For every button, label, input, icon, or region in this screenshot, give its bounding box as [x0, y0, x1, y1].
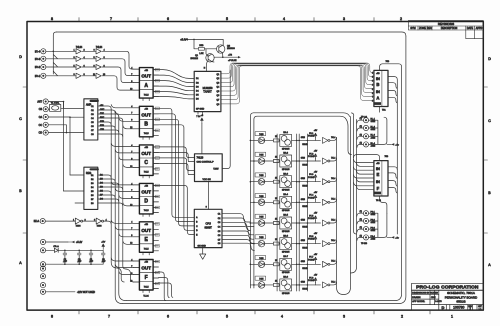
wire OUT C pin1 to 74123: [153, 147, 188, 158]
wire cap rail bottom: [46, 263, 104, 265]
connector spare pin1: [40, 274, 45, 279]
svg-text:+RD2: +RD2: [371, 129, 376, 131]
transistor Q2: [217, 45, 236, 53]
wire vertical x70: [69, 117, 71, 175]
svg-text:7405: 7405: [259, 237, 263, 239]
wire buffer stage 1 to 2 row A-D: [82, 51, 96, 76]
junction dots tall chips left: [63, 101, 65, 103]
svg-text:DIMENSIONS IN INCHES: DIMENSIONS IN INCHES: [412, 292, 438, 294]
svg-text:MPSA65: MPSA65: [282, 271, 289, 274]
svg-text:OUT: OUT: [141, 228, 151, 233]
svg-text:I/O-3: I/O-3: [35, 59, 41, 61]
junction dots driver bus: [250, 140, 255, 286]
driver row 6: [250, 235, 336, 250]
wire I/O-B row w/ jog: [46, 55, 76, 59]
svg-text:560JB: 560JB: [302, 247, 308, 249]
crystal Y1 module: [50, 101, 61, 111]
connector J1 pin I/O-C: [41, 64, 46, 69]
driver column rail x299: [298, 134, 300, 291]
svg-text:E: E: [377, 172, 380, 177]
bus vertical A (loop outer): [115, 112, 123, 304]
wire input bus vertical: [53, 32, 56, 74]
svg-text:74L4: 74L4: [331, 219, 335, 221]
wire Q2 emitter to output node: [222, 53, 224, 57]
IN BA pin numbers: [372, 73, 373, 103]
svg-text:I/O-4: I/O-4: [35, 51, 41, 53]
svg-text:CPU: CPU: [205, 222, 211, 226]
U5 right pin net labels: [100, 105, 105, 131]
test point group TP-BB: [360, 211, 369, 245]
wire IN BA bottom pin: [379, 107, 381, 113]
connector PWR GND1: [40, 248, 45, 253]
svg-text:D: D: [144, 199, 148, 205]
svg-text:A: A: [144, 83, 148, 89]
svg-text:560JB: 560JB: [302, 144, 308, 146]
connector PWR GND2: [40, 262, 45, 267]
svg-text:IN: IN: [376, 76, 380, 81]
buffer U3C: [96, 64, 101, 69]
wire top long run to right loop: [56, 32, 406, 36]
svg-text:GRN: GRN: [301, 220, 306, 222]
svg-text:R5B: R5B: [199, 45, 204, 47]
ground below CPU: [200, 248, 206, 260]
feeder vertical bundle line 2: [351, 120, 357, 274]
driver IC OUT E: [130, 222, 159, 255]
+5v arrow RL group2: [387, 236, 400, 240]
wire OUT A pin5 to UART D5: [153, 92, 194, 95]
svg-text:CB: CB: [39, 109, 43, 111]
U5 right pin labels: [91, 106, 94, 136]
svg-text:103780: 103780: [453, 306, 464, 310]
wire OUT A pin2 to UART D2: [153, 75, 194, 82]
wire -12V not used: [46, 291, 75, 293]
wire +5 to 74123: [201, 115, 204, 154]
svg-text:2: 2: [372, 77, 373, 79]
driver IC OUT D: [130, 183, 159, 216]
svg-text:OUT: OUT: [141, 151, 151, 156]
svg-text:74L5: 74L5: [144, 94, 150, 96]
wire Q2 base branch to Q1: [206, 49, 208, 57]
wire BZ out to bus: [104, 221, 112, 224]
wire OUT F pins to bottom loop: [159, 272, 173, 301]
one-shot IC 74123: [195, 154, 223, 182]
svg-text:1: 1: [372, 73, 373, 75]
svg-text:MPSA65: MPSA65: [282, 189, 289, 192]
svg-text:560JB: 560JB: [302, 206, 308, 208]
svg-text:560JB: 560JB: [302, 227, 308, 229]
connector labels I/O: [35, 51, 41, 78]
title block text: [412, 285, 482, 311]
svg-text:7406: 7406: [76, 226, 82, 228]
svg-text:CR-A: CR-A: [53, 245, 59, 248]
svg-text:560JB: 560JB: [302, 185, 308, 187]
wire to resistor R5: [194, 39, 198, 48]
svg-text:SYM: SYM: [410, 27, 415, 30]
wire Q1 collector output rail: [212, 57, 238, 62]
svg-text:GRN: GRN: [301, 199, 306, 201]
wire group2 row2 through crystal: [48, 107, 84, 110]
svg-text:7: 7: [108, 315, 110, 319]
svg-text:7405: 7405: [259, 134, 263, 136]
wire IN EF right pins to collector: [388, 167, 397, 193]
svg-text:560JB: 560JB: [302, 268, 308, 270]
svg-text:1.5K: 1.5K: [199, 53, 204, 55]
svg-text:C: C: [488, 119, 491, 123]
svg-text:P5-1: P5-1: [309, 133, 313, 135]
zone ticks left: [23, 87, 27, 233]
junction dot output: [222, 56, 224, 58]
zone ticks bottom: [79, 310, 430, 314]
svg-text:A: A: [376, 96, 379, 101]
svg-text:74L04: 74L04: [76, 47, 83, 49]
svg-text:74L4: 74L4: [331, 157, 335, 159]
wire bus to OUT F pins: [111, 258, 133, 282]
wire bus to OUT E pins: [111, 220, 133, 244]
svg-text:APP MODEL: APP MODEL: [412, 300, 426, 303]
svg-text:C: C: [144, 160, 148, 166]
svg-text:4: 4: [283, 17, 285, 21]
driver row 5: [250, 214, 336, 229]
svg-text:+5V: +5V: [101, 242, 105, 244]
svg-text:2: 2: [401, 315, 403, 319]
svg-text:DATE: DATE: [467, 27, 474, 30]
svg-text:GRN: GRN: [301, 137, 306, 139]
svg-text:2N2222: 2N2222: [190, 58, 198, 60]
svg-text:GRN: GRN: [301, 158, 306, 160]
svg-text:CC: CC: [39, 125, 43, 127]
decoder IC CPU 9368: [194, 209, 222, 247]
driver column rail x307: [306, 134, 308, 291]
junction dots cap rail: [64, 250, 92, 266]
svg-text:2N3638: 2N3638: [227, 48, 235, 50]
svg-text:+RD2: +RD2: [371, 121, 376, 123]
connector PWR +5: [40, 239, 45, 244]
svg-text:MA-1: MA-1: [283, 131, 288, 134]
label +5 AV arrow: [68, 241, 83, 245]
driver output bus U loop: [337, 117, 351, 295]
connector group2 pin CA: [43, 114, 48, 119]
svg-text:7405: 7405: [259, 217, 263, 219]
connector spare pin0: [40, 266, 45, 271]
svg-text:7405: 7405: [259, 155, 263, 157]
test point group TP-AA: [360, 115, 369, 147]
svg-text:CA: CA: [39, 116, 43, 119]
wire OUT A pin4 to UART D4: [153, 86, 194, 91]
svg-text:-12V NOT USED: -12V NOT USED: [77, 291, 95, 294]
wire U6 pin fan to bus: [98, 175, 123, 206]
svg-text:GRN: GRN: [301, 240, 306, 242]
pin numbers BZ: [73, 219, 108, 221]
svg-text:74L04: 74L04: [96, 47, 103, 49]
svg-text:P5-6: P5-6: [309, 236, 313, 238]
bus vertical D: [111, 109, 117, 268]
svg-text:POS4B: POS4B: [308, 280, 315, 282]
buffer U3B: [96, 56, 101, 61]
svg-text:7: 7: [110, 17, 112, 21]
svg-text:74L4: 74L4: [331, 281, 335, 283]
svg-text:6501/3: 6501/3: [456, 300, 466, 304]
svg-text:MA-4: MA-4: [283, 193, 288, 196]
tall IC U5 (left column upper): [84, 99, 98, 140]
wire buffer C out to OUT-A pin3: [102, 67, 133, 83]
svg-text:B: B: [144, 122, 148, 128]
wire IN EF top pin: [354, 155, 380, 161]
svg-text:74L4: 74L4: [331, 199, 335, 201]
svg-text:MPSA65: MPSA65: [282, 251, 289, 254]
svg-text:74L4: 74L4: [331, 240, 335, 242]
svg-text:APPD: APPD: [476, 27, 483, 30]
wire group2 row4 down bus: [48, 125, 66, 133]
svg-text:74L4: 74L4: [331, 137, 335, 139]
svg-text:IN: IN: [376, 179, 380, 184]
svg-text:POS4B: POS4B: [308, 177, 315, 179]
driver row 3: [250, 173, 336, 188]
connector J1 pin I/O-A: [41, 49, 46, 54]
driver IC OUT A: [130, 68, 159, 101]
wire cap rail top: [58, 249, 103, 251]
outer loop right side: [123, 36, 406, 304]
svg-text:OUT: OUT: [141, 266, 151, 271]
connector spare pin2: [40, 283, 45, 288]
connector BZ-A: [40, 219, 45, 224]
wire IN EF left pins from feeder: [354, 159, 374, 189]
RL labels group 1: [371, 119, 376, 148]
svg-text:8: 8: [51, 315, 53, 319]
svg-text:1: 1: [451, 315, 453, 319]
svg-text:DRAWN: DRAWN: [412, 296, 421, 299]
svg-text:74L4: 74L4: [331, 261, 335, 263]
svg-text:3: 3: [343, 315, 345, 319]
svg-text:OSC CONTROL P: OSC CONTROL P: [197, 161, 215, 163]
svg-text:I/O-2: I/O-2: [35, 67, 41, 69]
driver row 4: [250, 194, 336, 209]
wire +5 feed: [46, 241, 68, 243]
svg-text:560JB: 560JB: [302, 289, 308, 291]
svg-text:GRN: GRN: [301, 281, 306, 283]
svg-text:MPSA65: MPSA65: [282, 168, 289, 171]
wire buffer A out to OUT-A pin1: [102, 51, 133, 69]
wire buffer D out to OUT-A pin4: [102, 76, 133, 90]
svg-text:GRN: GRN: [301, 261, 306, 263]
svg-text:C: C: [19, 117, 22, 121]
svg-text:POS4B: POS4B: [308, 239, 315, 241]
svg-text:REVISIONS: REVISIONS: [438, 22, 454, 26]
svg-text:MPSA65: MPSA65: [282, 147, 289, 150]
label +PULSE output: [228, 55, 241, 62]
svg-text:4: 4: [372, 84, 373, 86]
svg-text:PRO-LOG CORPORATION: PRO-LOG CORPORATION: [416, 285, 479, 291]
zone ticks top: [79, 18, 374, 22]
feeder vertical bundle to IN chips: [352, 113, 357, 234]
svg-text:6: 6: [167, 315, 169, 319]
driver IC OUT F: [130, 259, 159, 297]
capacitor C8: [101, 250, 106, 264]
svg-text:4: 4: [281, 315, 283, 319]
svg-text:7: 7: [372, 97, 373, 99]
buffer U2C: [76, 64, 81, 69]
wire group2 row5 to chip: [48, 132, 84, 134]
svg-text:GRN: GRN: [301, 178, 306, 180]
svg-text:MA-5: MA-5: [283, 214, 288, 217]
svg-text:I/O-1: I/O-1: [35, 76, 41, 78]
svg-text:8: 8: [51, 17, 53, 21]
wire 74123 output to top bus: [222, 70, 230, 169]
driver row 1: opto U20, R20, Q20 pair, inverter: [250, 132, 336, 147]
driver column rail x277: [276, 134, 278, 291]
svg-text:7406: 7406: [97, 226, 103, 228]
svg-text:MPSA65: MPSA65: [282, 292, 289, 295]
tall IC U6 (left column lower): [84, 167, 98, 209]
svg-text:IN: IN: [376, 89, 380, 94]
svg-text:GP GND: GP GND: [196, 109, 205, 111]
driver column left bus 1: [250, 113, 349, 288]
svg-text:P5-4: P5-4: [309, 195, 313, 197]
svg-text:74L5: 74L5: [144, 249, 150, 251]
svg-text:POS4B: POS4B: [308, 136, 315, 138]
wire group2 row3: [48, 116, 84, 118]
svg-text:9368T: 9368T: [205, 225, 213, 229]
svg-text:T3 23: T3 23: [376, 200, 381, 202]
svg-text:TP-BB: TP-BB: [361, 243, 368, 245]
svg-text:MA-3: MA-3: [283, 172, 288, 175]
svg-text:+5 AV: +5 AV: [76, 241, 83, 244]
svg-text:POS4B: POS4B: [308, 259, 315, 261]
wire OUT C pin3 to 74123: [153, 158, 188, 171]
svg-text:D: D: [19, 55, 22, 59]
svg-text:2: 2: [400, 17, 402, 21]
+5v arrow RL group1: [387, 143, 400, 147]
svg-text:REV: REV: [427, 27, 432, 30]
buffer U3D: [96, 73, 101, 78]
svg-text:DESCRIPTION: DESCRIPTION: [441, 27, 458, 30]
zone letters left: [19, 55, 22, 265]
buffer U2B: [76, 56, 81, 61]
svg-text:74L5: 74L5: [144, 210, 150, 212]
UART bottom pins: [198, 112, 203, 115]
svg-text:6: 6: [372, 93, 373, 95]
wire OUT B pin4 to CPU D: [153, 125, 194, 231]
svg-text:7405: 7405: [259, 196, 263, 198]
wire I/O-A row: [46, 50, 76, 52]
capacitor C3: [77, 250, 82, 264]
wire OUT D pin1 to CPU E: [153, 185, 194, 234]
wire OUT B pin2 to CPU B: [153, 114, 194, 222]
svg-text:+RD2: +RD2: [371, 222, 376, 224]
wire IN EF bottom pin: [380, 196, 387, 213]
wire 74123 to CPU vertical: [208, 182, 210, 210]
title block: [412, 283, 484, 310]
driver row 7: [250, 255, 336, 270]
svg-text:P5-3: P5-3: [309, 174, 313, 176]
inverter U7A 7406: [75, 218, 82, 224]
svg-text:F: F: [145, 275, 148, 281]
connector group2 pin CD: [43, 130, 48, 135]
svg-text:B: B: [376, 82, 379, 87]
wire OUT A pin6 to UART D6: [153, 97, 194, 99]
driver row 8: [250, 276, 336, 291]
svg-text:T1-24: T1-24: [143, 296, 149, 298]
+5V arrow at cap rail: [101, 242, 105, 250]
buffer U2D: [76, 73, 81, 78]
svg-text:3: 3: [372, 80, 373, 82]
svg-text:P5-5: P5-5: [309, 215, 313, 217]
svg-text:MA-2: MA-2: [283, 152, 288, 155]
svg-text:OUT: OUT: [141, 74, 151, 79]
junction dot Q rail: [193, 39, 195, 41]
driver column left bus 2: [254, 116, 352, 288]
wire I/O-C row w/ jog: [46, 63, 76, 68]
driver IC OUT B: [130, 106, 159, 139]
receiver IC IN B / IN A: [374, 70, 388, 106]
zone letters right: [488, 57, 491, 267]
svg-text:74L5: 74L5: [144, 133, 150, 135]
svg-text:+RD2: +RD2: [371, 145, 376, 147]
U6 left pins: [64, 175, 84, 203]
driver column rail x296: [296, 134, 298, 291]
capacitor C1: [89, 250, 94, 264]
svg-text:CHK: CHK: [431, 297, 436, 299]
U6 right net labels: [100, 173, 104, 200]
svg-text:P5-8: P5-8: [309, 277, 313, 279]
junction dots group2: [66, 132, 68, 134]
bus vertical B (loop inner): [119, 116, 127, 301]
svg-text:+RD2: +RD2: [371, 214, 376, 216]
svg-text:GN GND: GN GND: [198, 245, 207, 247]
buffer U3A 74L04: [96, 49, 101, 54]
U6 right pin labels: [91, 175, 94, 205]
wire UART bus to IN AB chip (8 lines): [221, 63, 374, 74]
bus vertical C: [123, 121, 126, 269]
UART IC U10: [194, 71, 221, 111]
wire bus to OUT B pins: [111, 105, 133, 129]
diode CR-A: [46, 245, 60, 252]
zone numbers top: [51, 17, 402, 21]
wire IN BA top pin to inner loop: [126, 64, 401, 301]
capacitor C2: [63, 250, 68, 264]
svg-text:P5-2: P5-2: [309, 153, 313, 155]
connector J1 pin I/O-B: [41, 56, 46, 61]
wire resistor to Q2 base: [204, 48, 216, 50]
svg-text:+RD2: +RD2: [371, 230, 376, 232]
svg-text:6: 6: [167, 17, 169, 21]
svg-text:MA-7: MA-7: [283, 255, 288, 258]
svg-text:TXART: TXART: [203, 90, 212, 94]
driver row 2: [250, 152, 336, 167]
svg-text:7405: 7405: [259, 278, 263, 280]
group2 labels: [37, 101, 42, 135]
svg-text:VCC GN: VCC GN: [203, 179, 212, 181]
wire vertical x63.5: [63, 102, 65, 192]
RL labels group 2: [371, 212, 376, 241]
svg-text:560JB: 560JB: [302, 165, 308, 167]
wire I/O-D row w/ jog: [46, 71, 76, 76]
wire U5 pin fan to bus: [98, 106, 123, 137]
svg-text:5: 5: [226, 315, 228, 319]
wire OUT A pin1 to UART D1: [153, 70, 194, 79]
wire RL group2 right rail: [369, 213, 387, 237]
svg-text:MU8250: MU8250: [203, 86, 213, 90]
svg-text:MPSA65: MPSA65: [282, 230, 289, 233]
resistor R5: [198, 45, 204, 55]
svg-text:D: D: [442, 305, 445, 310]
wire BZ-A to inverter: [45, 220, 75, 222]
driver IC OUT C: [130, 145, 159, 178]
svg-text:+7B: +7B: [228, 55, 232, 57]
connector group2 pin ANT: [43, 99, 48, 104]
wire RL group1 left feeds: [357, 120, 364, 147]
svg-text:IN: IN: [376, 166, 380, 171]
zone numbers bottom: [51, 315, 453, 319]
